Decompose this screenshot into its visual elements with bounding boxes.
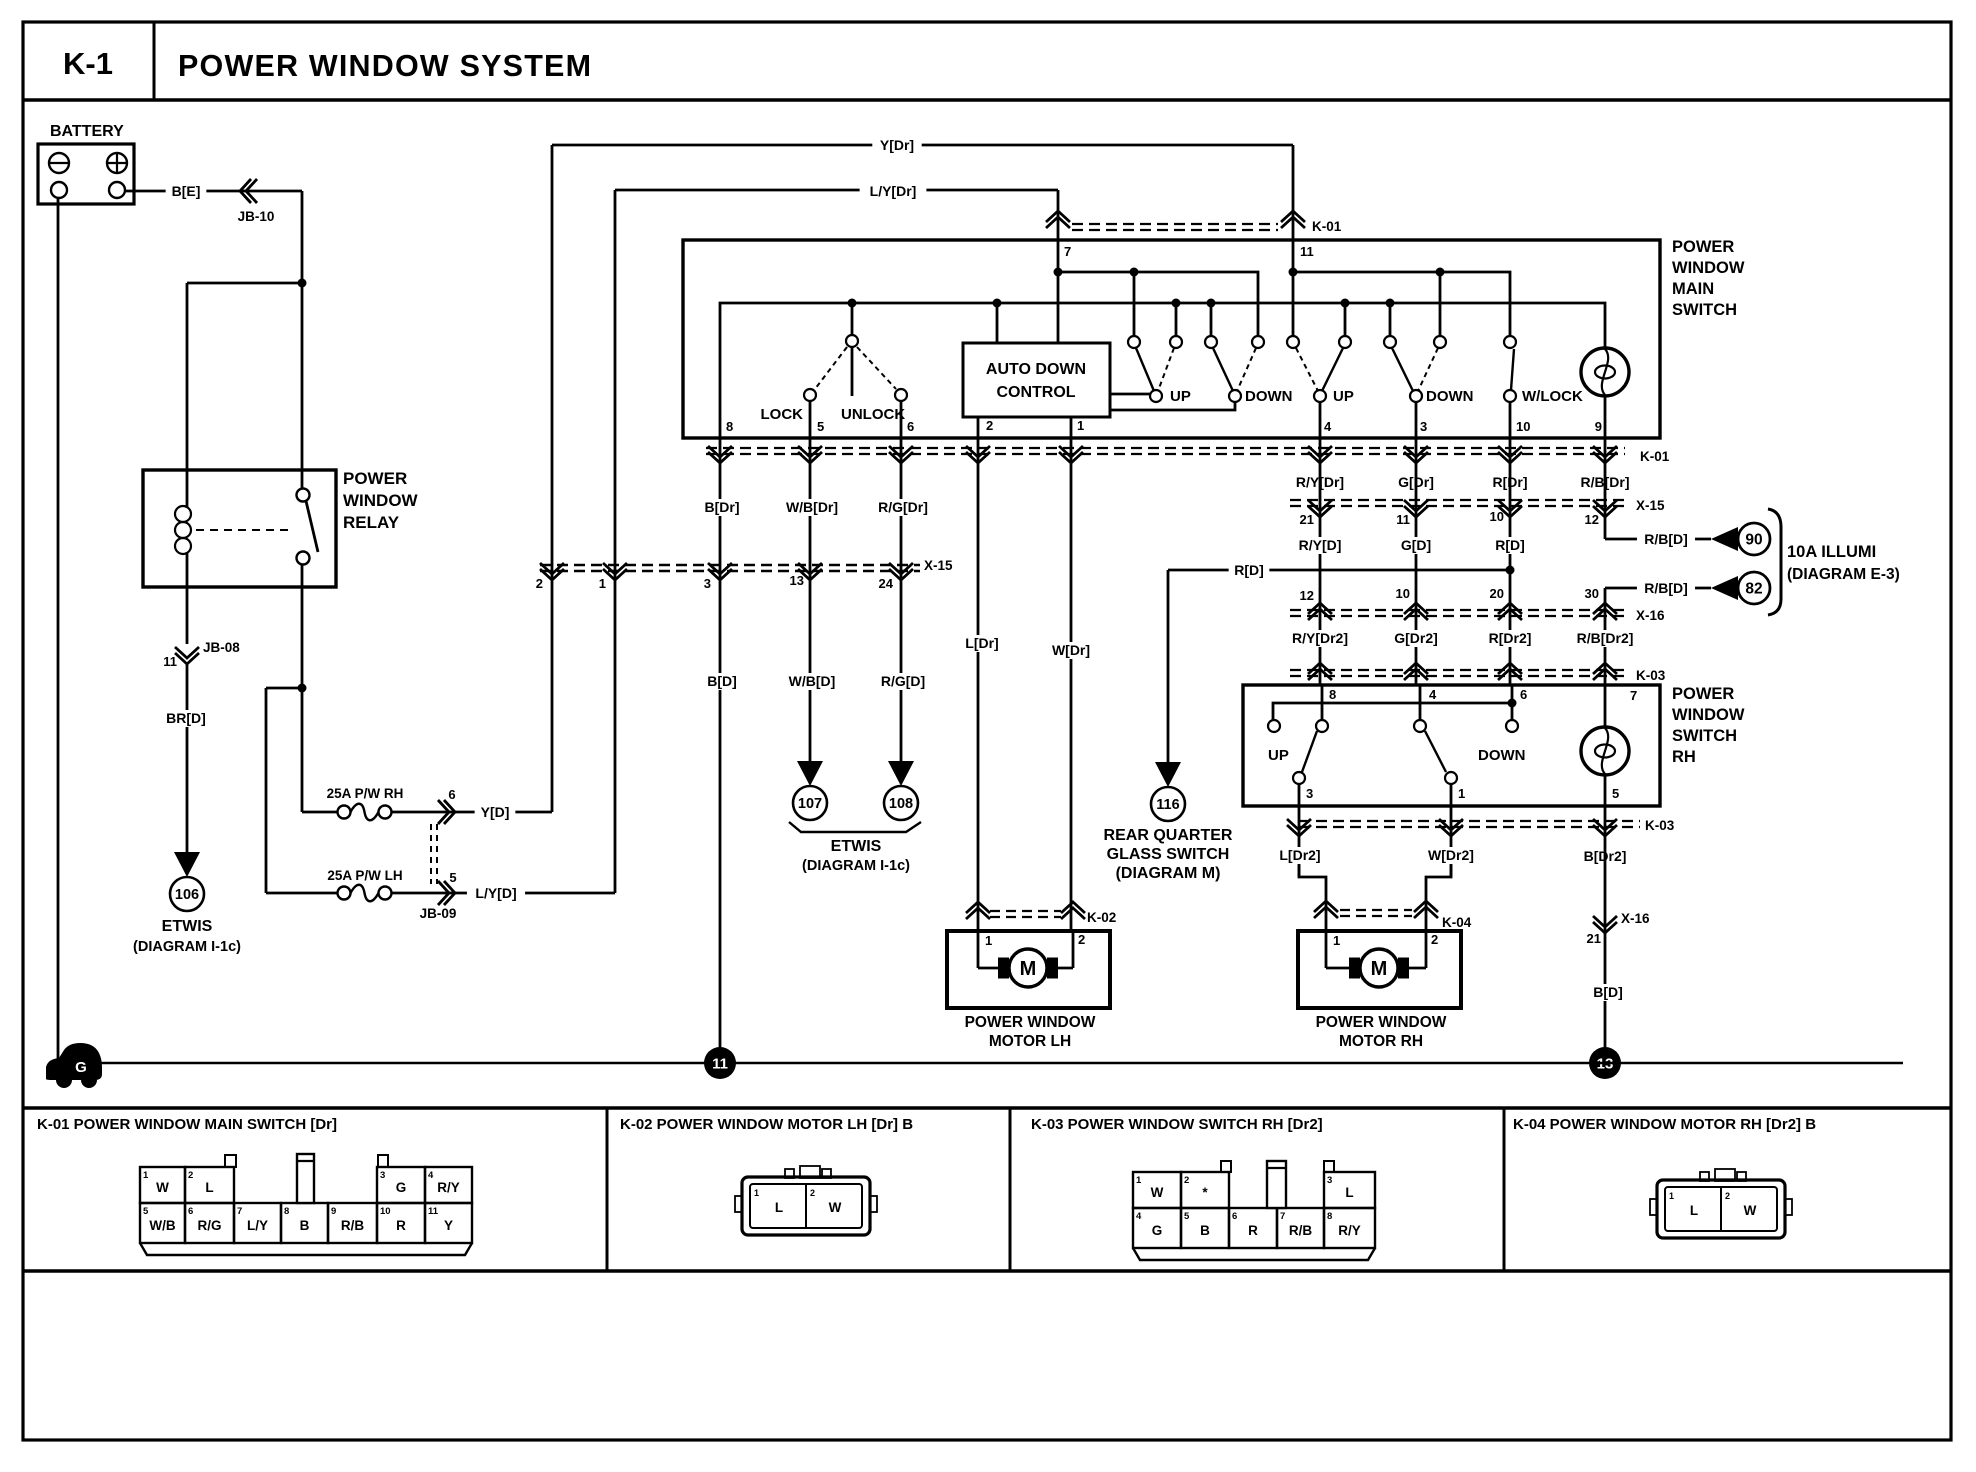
svg-text:3: 3 xyxy=(1306,786,1313,801)
svg-text:1: 1 xyxy=(1458,786,1465,801)
svg-text:BR[D]: BR[D] xyxy=(166,710,206,726)
svg-text:3: 3 xyxy=(380,1170,385,1181)
svg-text:POWER: POWER xyxy=(343,469,407,488)
svg-text:K-02: K-02 xyxy=(1087,910,1116,925)
svg-text:UP: UP xyxy=(1333,388,1354,405)
svg-text:R[Dr2]: R[Dr2] xyxy=(1489,630,1532,646)
svg-text:W: W xyxy=(1151,1185,1164,1200)
svg-text:B[D]: B[D] xyxy=(1593,984,1623,1000)
svg-text:108: 108 xyxy=(889,796,913,812)
svg-text:(DIAGRAM I-1c): (DIAGRAM I-1c) xyxy=(133,939,241,955)
svg-text:ETWIS: ETWIS xyxy=(831,838,882,855)
svg-text:X-16: X-16 xyxy=(1621,911,1650,926)
svg-text:ETWIS: ETWIS xyxy=(162,918,213,935)
svg-text:L[Dr]: L[Dr] xyxy=(965,635,998,651)
svg-text:L/Y[D]: L/Y[D] xyxy=(475,885,516,901)
svg-text:B[E]: B[E] xyxy=(172,183,201,199)
svg-text:25A P/W RH: 25A P/W RH xyxy=(327,786,404,801)
svg-text:SWITCH: SWITCH xyxy=(1672,727,1737,745)
svg-text:L[Dr2]: L[Dr2] xyxy=(1279,847,1320,863)
svg-text:(DIAGRAM I-1c): (DIAGRAM I-1c) xyxy=(802,858,910,874)
svg-text:LOCK: LOCK xyxy=(761,406,804,423)
svg-text:21: 21 xyxy=(1300,512,1314,527)
svg-text:UNLOCK: UNLOCK xyxy=(841,406,905,423)
svg-text:2: 2 xyxy=(1078,932,1085,947)
svg-text:K-03: K-03 xyxy=(1645,818,1675,833)
svg-text:5: 5 xyxy=(1184,1211,1190,1222)
svg-text:G[D]: G[D] xyxy=(1401,537,1431,553)
svg-text:1: 1 xyxy=(1669,1191,1674,1201)
svg-text:(DIAGRAM M): (DIAGRAM M) xyxy=(1116,865,1221,882)
svg-text:K-1: K-1 xyxy=(63,46,113,81)
svg-text:2: 2 xyxy=(1725,1191,1730,1201)
svg-text:6: 6 xyxy=(1520,687,1527,702)
svg-text:Y[D]: Y[D] xyxy=(481,804,510,820)
svg-text:G: G xyxy=(75,1059,87,1076)
svg-text:POWER WINDOW: POWER WINDOW xyxy=(965,1014,1096,1031)
svg-text:11: 11 xyxy=(163,654,177,669)
svg-text:8: 8 xyxy=(726,419,733,434)
svg-text:W: W xyxy=(829,1200,842,1215)
svg-text:L/Y: L/Y xyxy=(247,1218,268,1233)
svg-text:R/Y[D]: R/Y[D] xyxy=(1299,537,1342,553)
svg-text:POWER WINDOW: POWER WINDOW xyxy=(1316,1014,1447,1031)
svg-text:K-04 POWER WINDOW MOTOR RH [Dr: K-04 POWER WINDOW MOTOR RH [Dr2] B xyxy=(1513,1116,1816,1133)
svg-text:13: 13 xyxy=(790,573,804,588)
svg-text:W[Dr]: W[Dr] xyxy=(1052,642,1090,658)
svg-text:R/Y: R/Y xyxy=(1338,1223,1361,1238)
svg-text:K-01: K-01 xyxy=(1312,219,1342,234)
svg-text:R: R xyxy=(396,1218,406,1233)
svg-text:WINDOW: WINDOW xyxy=(1672,706,1745,724)
svg-text:R/G[Dr]: R/G[Dr] xyxy=(878,499,928,515)
svg-text:JB-08: JB-08 xyxy=(203,640,240,655)
svg-text:R/B[Dr2]: R/B[Dr2] xyxy=(1577,630,1634,646)
svg-text:POWER: POWER xyxy=(1672,685,1734,703)
svg-text:12: 12 xyxy=(1585,512,1599,527)
svg-text:R/G[D]: R/G[D] xyxy=(881,673,925,689)
svg-text:5: 5 xyxy=(817,419,824,434)
svg-text:B[Dr]: B[Dr] xyxy=(705,499,740,515)
svg-text:2: 2 xyxy=(188,1170,193,1181)
svg-text:4: 4 xyxy=(428,1170,434,1181)
svg-text:MAIN: MAIN xyxy=(1672,280,1714,298)
svg-text:MOTOR RH: MOTOR RH xyxy=(1339,1033,1423,1050)
svg-text:R/B: R/B xyxy=(1289,1223,1313,1238)
svg-text:3: 3 xyxy=(1327,1175,1332,1186)
svg-text:4: 4 xyxy=(1136,1211,1142,1222)
svg-text:1: 1 xyxy=(1136,1175,1142,1186)
svg-text:3: 3 xyxy=(1420,419,1427,434)
svg-text:X-15: X-15 xyxy=(924,558,953,573)
svg-text:8: 8 xyxy=(1329,687,1336,702)
svg-text:M: M xyxy=(1371,958,1388,980)
svg-text:B[D]: B[D] xyxy=(707,673,737,689)
svg-text:10: 10 xyxy=(1396,586,1410,601)
svg-text:W/B: W/B xyxy=(149,1218,175,1233)
svg-text:82: 82 xyxy=(1745,581,1762,598)
svg-text:30: 30 xyxy=(1585,586,1599,601)
svg-text:9: 9 xyxy=(1595,419,1602,434)
svg-text:2: 2 xyxy=(1184,1175,1189,1186)
svg-text:DOWN: DOWN xyxy=(1426,388,1474,405)
svg-text:1: 1 xyxy=(1333,933,1340,948)
svg-text:B: B xyxy=(300,1218,310,1233)
svg-text:RH: RH xyxy=(1672,748,1696,766)
svg-text:R/G: R/G xyxy=(197,1218,221,1233)
svg-text:4: 4 xyxy=(1429,687,1437,702)
svg-text:1: 1 xyxy=(985,933,992,948)
svg-text:2: 2 xyxy=(1431,932,1438,947)
svg-text:MOTOR LH: MOTOR LH xyxy=(989,1033,1071,1050)
svg-text:K-01: K-01 xyxy=(1640,449,1670,464)
svg-text:W/B[D]: W/B[D] xyxy=(789,673,836,689)
svg-text:UP: UP xyxy=(1170,388,1191,405)
svg-text:W/LOCK: W/LOCK xyxy=(1522,388,1583,405)
svg-text:9: 9 xyxy=(331,1206,336,1217)
svg-text:5: 5 xyxy=(1612,786,1619,801)
svg-text:L/Y[Dr]: L/Y[Dr] xyxy=(870,183,917,199)
svg-text:WINDOW: WINDOW xyxy=(343,491,419,510)
svg-text:UP: UP xyxy=(1268,747,1289,764)
svg-text:11: 11 xyxy=(712,1056,728,1073)
svg-text:G: G xyxy=(1152,1223,1163,1238)
svg-text:K-01 POWER WINDOW MAIN SWITCH: K-01 POWER WINDOW MAIN SWITCH [Dr] xyxy=(37,1116,337,1133)
svg-text:1: 1 xyxy=(1077,418,1084,433)
svg-text:2: 2 xyxy=(810,1188,815,1198)
svg-text:POWER WINDOW SYSTEM: POWER WINDOW SYSTEM xyxy=(178,49,592,83)
svg-text:K-03 POWER WINDOW SWITCH RH [D: K-03 POWER WINDOW SWITCH RH [Dr2] xyxy=(1031,1116,1323,1133)
svg-text:*: * xyxy=(1202,1185,1208,1200)
svg-text:107: 107 xyxy=(798,796,822,812)
svg-text:10A ILLUMI: 10A ILLUMI xyxy=(1787,543,1876,561)
svg-text:4: 4 xyxy=(1324,419,1332,434)
svg-text:11: 11 xyxy=(1300,244,1314,259)
svg-text:L: L xyxy=(1345,1185,1353,1200)
svg-text:AUTO DOWN: AUTO DOWN xyxy=(986,361,1086,378)
svg-text:SWITCH: SWITCH xyxy=(1672,301,1737,319)
svg-text:6: 6 xyxy=(448,787,455,802)
svg-text:R/B[D]: R/B[D] xyxy=(1644,531,1688,547)
svg-text:1: 1 xyxy=(143,1170,149,1181)
svg-text:RELAY: RELAY xyxy=(343,513,400,532)
svg-text:20: 20 xyxy=(1490,586,1504,601)
svg-text:10: 10 xyxy=(1490,509,1504,524)
svg-text:116: 116 xyxy=(1156,797,1179,813)
svg-text:JB-10: JB-10 xyxy=(238,209,275,224)
svg-text:K-04: K-04 xyxy=(1442,915,1472,930)
svg-text:Y[Dr]: Y[Dr] xyxy=(880,137,914,153)
svg-text:X-16: X-16 xyxy=(1636,608,1665,623)
svg-text:JB-09: JB-09 xyxy=(420,906,457,921)
svg-text:CONTROL: CONTROL xyxy=(996,384,1075,401)
svg-text:WINDOW: WINDOW xyxy=(1672,259,1745,277)
svg-text:5: 5 xyxy=(143,1206,149,1217)
svg-text:1: 1 xyxy=(599,576,606,591)
svg-text:POWER: POWER xyxy=(1672,238,1734,256)
svg-text:G[Dr2]: G[Dr2] xyxy=(1394,630,1438,646)
svg-text:R/Y[Dr2]: R/Y[Dr2] xyxy=(1292,630,1348,646)
svg-text:6: 6 xyxy=(907,419,914,434)
svg-text:R: R xyxy=(1248,1223,1258,1238)
svg-text:8: 8 xyxy=(284,1206,289,1217)
svg-text:X-15: X-15 xyxy=(1636,498,1665,513)
svg-text:10: 10 xyxy=(380,1206,391,1217)
svg-text:11: 11 xyxy=(428,1206,439,1217)
svg-text:106: 106 xyxy=(175,887,199,903)
svg-text:7: 7 xyxy=(1280,1211,1285,1222)
svg-text:Y: Y xyxy=(444,1218,453,1233)
svg-text:3: 3 xyxy=(704,576,711,591)
svg-text:W/B[Dr]: W/B[Dr] xyxy=(786,499,838,515)
svg-text:6: 6 xyxy=(188,1206,193,1217)
svg-text:W: W xyxy=(156,1180,169,1195)
svg-text:DOWN: DOWN xyxy=(1245,388,1293,405)
svg-text:L: L xyxy=(775,1200,783,1215)
svg-text:G: G xyxy=(396,1180,407,1195)
svg-text:25A P/W LH: 25A P/W LH xyxy=(327,868,402,883)
svg-text:DOWN: DOWN xyxy=(1478,747,1526,764)
svg-text:K-03: K-03 xyxy=(1636,668,1666,683)
svg-text:1: 1 xyxy=(754,1188,759,1198)
svg-text:R[D]: R[D] xyxy=(1495,537,1525,553)
svg-text:7: 7 xyxy=(1630,688,1637,703)
svg-text:REAR QUARTER: REAR QUARTER xyxy=(1104,827,1233,844)
svg-text:6: 6 xyxy=(1232,1211,1237,1222)
svg-text:R/B[D]: R/B[D] xyxy=(1644,580,1688,596)
svg-text:L: L xyxy=(205,1180,213,1195)
svg-text:7: 7 xyxy=(237,1206,242,1217)
svg-text:R[D]: R[D] xyxy=(1234,562,1264,578)
svg-text:8: 8 xyxy=(1327,1211,1332,1222)
svg-text:90: 90 xyxy=(1745,532,1762,549)
svg-text:M: M xyxy=(1020,958,1037,980)
svg-text:12: 12 xyxy=(1300,588,1314,603)
svg-text:(DIAGRAM E-3): (DIAGRAM E-3) xyxy=(1787,566,1900,583)
svg-text:7: 7 xyxy=(1064,244,1071,259)
svg-text:11: 11 xyxy=(1396,512,1410,527)
svg-text:GLASS SWITCH: GLASS SWITCH xyxy=(1107,846,1230,863)
svg-text:W: W xyxy=(1744,1203,1757,1218)
svg-text:K-02 POWER WINDOW MOTOR LH [Dr: K-02 POWER WINDOW MOTOR LH [Dr] B xyxy=(620,1116,913,1133)
svg-text:5: 5 xyxy=(449,870,456,885)
svg-text:10: 10 xyxy=(1516,419,1530,434)
svg-text:2: 2 xyxy=(536,576,543,591)
svg-text:R/Y: R/Y xyxy=(437,1180,460,1195)
svg-text:B: B xyxy=(1200,1223,1210,1238)
svg-text:W[Dr2]: W[Dr2] xyxy=(1428,847,1474,863)
svg-text:BATTERY: BATTERY xyxy=(50,123,124,140)
svg-text:2: 2 xyxy=(986,418,993,433)
svg-text:L: L xyxy=(1690,1203,1698,1218)
svg-text:R/B: R/B xyxy=(341,1218,365,1233)
svg-text:24: 24 xyxy=(879,576,894,591)
svg-text:21: 21 xyxy=(1587,931,1601,946)
